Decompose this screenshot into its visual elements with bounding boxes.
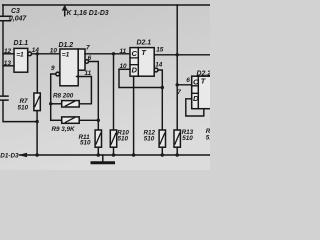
svg-text:D1.1: D1.1 (14, 40, 29, 47)
svg-text:10: 10 (120, 63, 128, 70)
svg-text:=1: =1 (62, 52, 70, 59)
svg-text:12: 12 (4, 48, 12, 55)
svg-text:=1: =1 (16, 51, 24, 58)
svg-text:14: 14 (32, 47, 40, 54)
svg-text:510: 510 (80, 140, 91, 147)
svg-text:9: 9 (51, 65, 55, 72)
svg-text:D: D (132, 66, 138, 75)
svg-text:14: 14 (155, 61, 163, 68)
svg-text:11: 11 (85, 70, 92, 77)
svg-text:R9 3,9K: R9 3,9K (52, 126, 76, 133)
svg-text:C: C (132, 49, 138, 58)
svg-text:D: D (193, 94, 199, 103)
svg-text:0,047: 0,047 (9, 16, 27, 23)
svg-text:7: 7 (177, 89, 181, 96)
svg-text:C3: C3 (11, 8, 20, 15)
svg-text:C: C (193, 77, 199, 86)
svg-text:D2.1: D2.1 (137, 40, 152, 47)
svg-text:510: 510 (182, 135, 193, 142)
svg-text:K 1,16 D1-D3: K 1,16 D1-D3 (67, 10, 109, 17)
svg-text:D1.2: D1.2 (59, 42, 74, 49)
svg-text:15: 15 (156, 47, 164, 54)
svg-text:7: 7 (86, 45, 90, 52)
svg-text:510: 510 (144, 136, 155, 143)
svg-text:6: 6 (88, 55, 92, 62)
svg-text:51: 51 (206, 134, 210, 141)
svg-text:R8 200: R8 200 (53, 93, 74, 100)
svg-text:10: 10 (50, 48, 58, 55)
svg-text:11: 11 (120, 48, 127, 55)
svg-text:510: 510 (18, 104, 29, 111)
svg-text:D1-D3: D1-D3 (0, 153, 19, 160)
svg-text:6: 6 (186, 77, 190, 84)
svg-text:510: 510 (118, 136, 129, 143)
svg-text:13: 13 (4, 60, 12, 67)
